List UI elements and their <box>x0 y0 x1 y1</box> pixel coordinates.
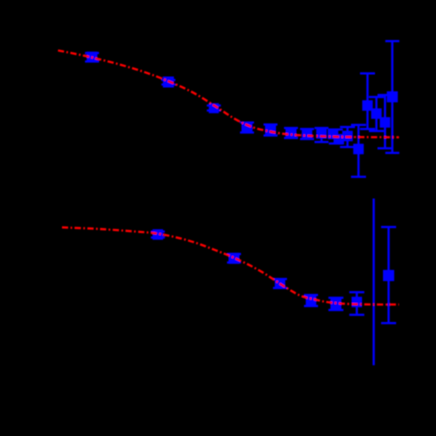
data point T4 <box>242 122 253 133</box>
data point T7 <box>302 129 313 140</box>
error bar B5 <box>328 298 343 310</box>
data point T1 <box>87 52 98 63</box>
error bar T15 <box>385 41 399 153</box>
data point T10 <box>342 131 353 142</box>
data point T11 <box>353 144 364 155</box>
tall uncapped error bar bottom panel <box>373 199 375 366</box>
error bar T10 <box>340 127 355 147</box>
error bar T14 <box>378 95 393 148</box>
error bar T5 <box>264 125 278 136</box>
error bar T7 <box>300 129 314 139</box>
error bar T1 <box>85 53 99 62</box>
error bar T6 <box>284 128 298 138</box>
error bar B1 <box>151 232 165 238</box>
data point T12 <box>362 100 373 111</box>
data point B4 <box>306 295 317 306</box>
error bar T8 <box>315 128 329 142</box>
data point T13 <box>371 108 382 119</box>
error bar T2 <box>161 80 175 85</box>
data point T8 <box>316 128 327 139</box>
error bar B2 <box>227 254 241 263</box>
data point B7 <box>383 270 394 281</box>
data point B3 <box>275 278 286 289</box>
data point T9a <box>328 129 339 140</box>
data point T3 <box>209 103 219 113</box>
data point B2 <box>229 253 240 264</box>
error bar T13 <box>369 97 384 131</box>
data point T5 <box>265 125 276 136</box>
data point T2 <box>163 77 174 88</box>
data point T9b <box>334 134 345 145</box>
error bar T12 <box>360 73 375 129</box>
error bar B3 <box>273 279 287 288</box>
data point B5 <box>330 298 341 309</box>
model curve top panel (red dash-dot) <box>58 50 399 137</box>
error bar T4 <box>240 123 254 133</box>
data point B1 <box>153 229 164 240</box>
error bar B7 <box>381 227 396 323</box>
data point T6 <box>286 128 297 139</box>
error bar B4 <box>304 295 318 306</box>
error bar T9 <box>329 130 343 144</box>
error bar B6 <box>349 292 364 315</box>
model curve bottom panel (red dash-dot) <box>62 227 399 304</box>
error bar T3 <box>207 106 221 111</box>
data point T14 <box>380 117 391 128</box>
data point B6 <box>352 297 363 308</box>
error bar T11 <box>351 125 366 177</box>
data point T15 <box>387 91 398 102</box>
